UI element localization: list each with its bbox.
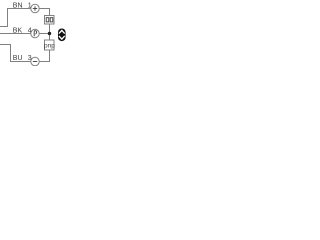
- svg-text:BK: BK: [13, 27, 23, 34]
- svg-text:BN: BN: [13, 2, 23, 9]
- svg-text:pnp: pnp: [44, 43, 55, 50]
- svg-text:3: 3: [28, 55, 32, 62]
- svg-text:4: 4: [28, 27, 32, 34]
- svg-text:BU: BU: [13, 55, 23, 62]
- svg-text:1: 1: [28, 2, 32, 9]
